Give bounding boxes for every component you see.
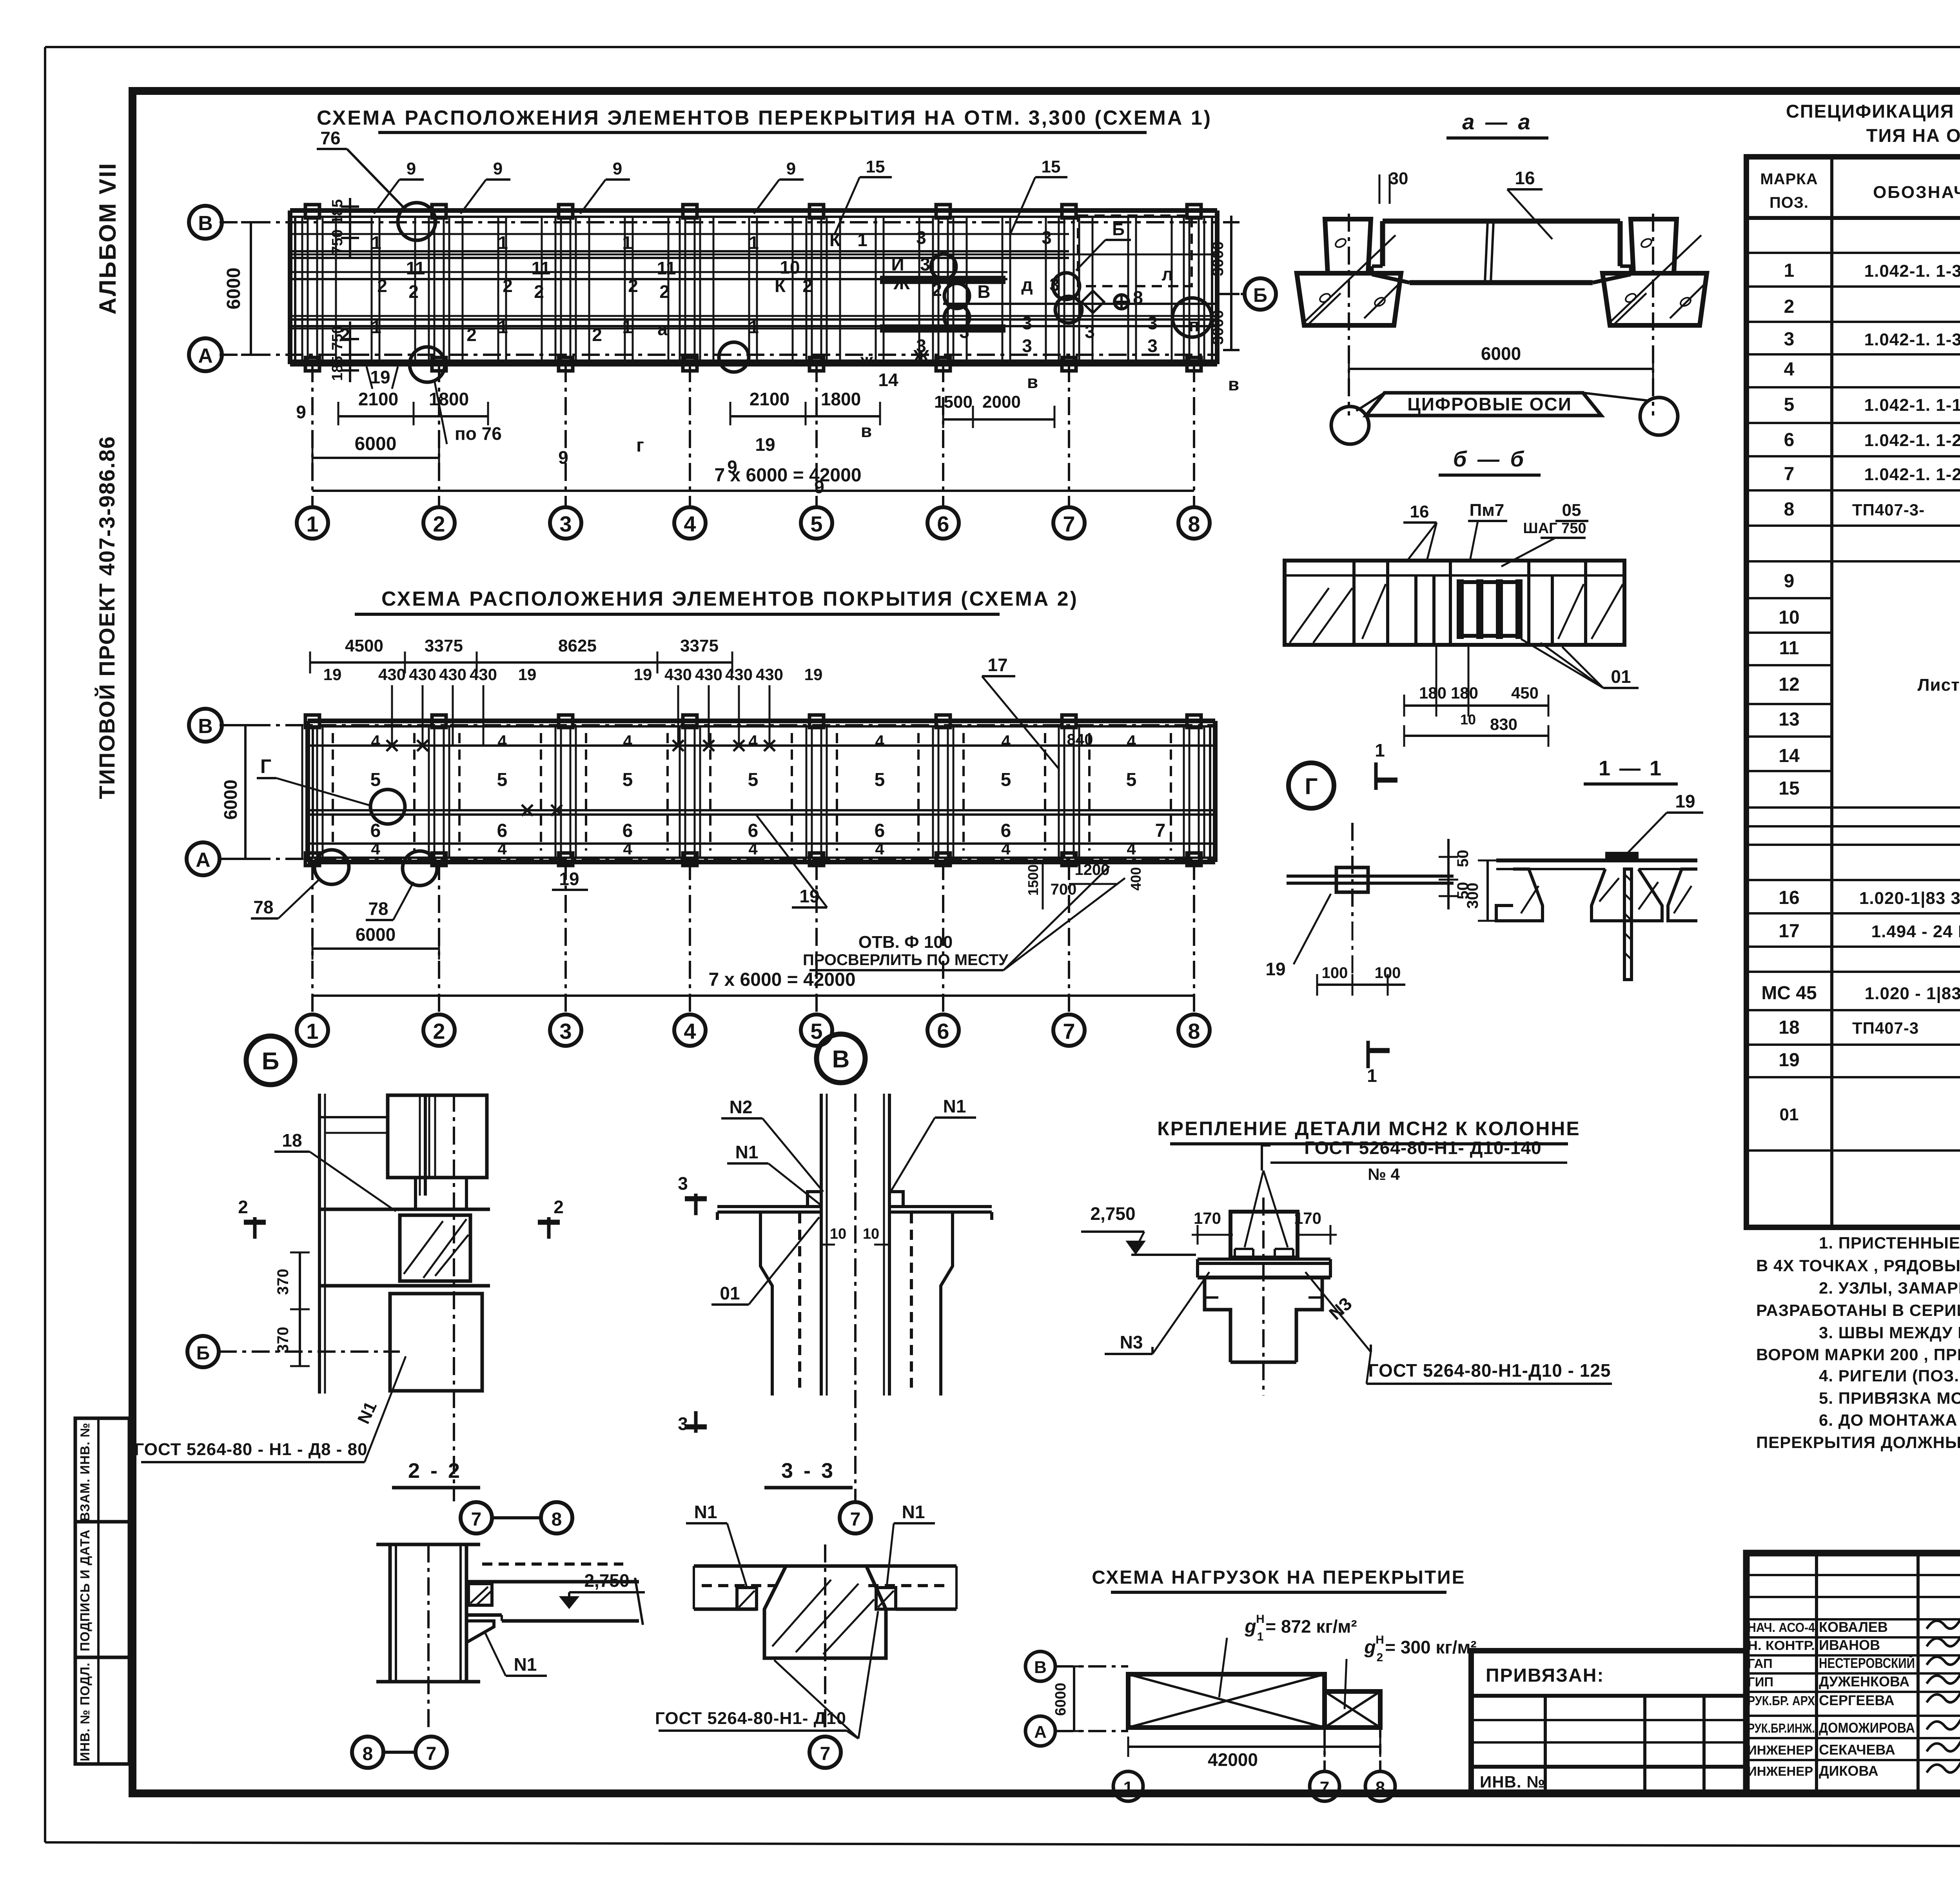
- svg-text:4: 4: [875, 732, 884, 750]
- svg-text:РАЗРАБОТАНЫ В СЕРИИ 1.020 -: РАЗРАБОТАНЫ В СЕРИИ 1.020 - 1|83 ВЫП. 6-…: [1756, 1301, 1960, 1320]
- schema 1 right dimension 3000/3000: [1209, 216, 1240, 350]
- svg-text:1: 1: [371, 232, 381, 253]
- svg-text:Б: Б: [1253, 284, 1267, 306]
- svg-text:15: 15: [866, 157, 885, 176]
- svg-text:6: 6: [748, 820, 759, 841]
- svg-text:78: 78: [253, 897, 273, 917]
- svg-text:2: 2: [466, 325, 477, 345]
- schema 2 axis lines: [220, 725, 1215, 859]
- svg-text:ДОМОЖИРОВА: ДОМОЖИРОВА: [1819, 1720, 1915, 1736]
- svg-text:СПЕЦИФИКАЦИЯ К СХЕМАМ РАСПО: СПЕЦИФИКАЦИЯ К СХЕМАМ РАСПОЛОЖЕНИЯ ЭЛЕМЕ…: [1786, 101, 1960, 122]
- detail Б leader 18: [274, 1130, 396, 1211]
- svg-text:№ 4: № 4: [1368, 1165, 1400, 1183]
- svg-text:Пм7: Пм7: [1470, 501, 1504, 520]
- svg-text:1.020 - 1|83 7-1 120: 1.020 - 1|83 7-1 120: [1865, 984, 1960, 1004]
- svg-text:К: К: [775, 276, 786, 296]
- schema 1 left dimension 185/750 top: [329, 198, 359, 259]
- svg-text:10: 10: [1460, 711, 1476, 728]
- section a-a left support (ригель): [1297, 219, 1401, 325]
- svg-text:6000: 6000: [1053, 1683, 1069, 1716]
- svg-text:11: 11: [1779, 638, 1799, 659]
- svg-text:370: 370: [274, 1327, 292, 1353]
- svg-text:180: 180: [1451, 684, 1478, 702]
- load schema axis circles В А: [1025, 1651, 1128, 1746]
- svg-text:4: 4: [497, 732, 507, 750]
- svg-text:7: 7: [1320, 1778, 1329, 1797]
- svg-text:300: 300: [1464, 883, 1481, 909]
- svg-text:ДИКОВА: ДИКОВА: [1819, 1763, 1878, 1779]
- schema 2 node circles bottom: [314, 850, 437, 886]
- svg-text:2,750: 2,750: [584, 1570, 629, 1591]
- section 1-1 drawing: [1496, 852, 1697, 980]
- svg-text:1500: 1500: [934, 392, 973, 412]
- svg-text:19: 19: [755, 434, 775, 455]
- detail В leaders N2 N1: [721, 1096, 976, 1205]
- svg-text:1: 1: [1367, 1065, 1377, 1086]
- svg-text:830: 830: [1490, 715, 1517, 733]
- svg-text:170: 170: [1194, 1209, 1221, 1227]
- detail Г drawing: [1287, 823, 1454, 922]
- svg-text:430: 430: [378, 665, 406, 684]
- svg-text:2: 2: [433, 512, 445, 536]
- svg-text:170: 170: [1294, 1209, 1321, 1227]
- detail Г section mark 1 top: [1375, 740, 1397, 790]
- schema 1 label по 7Б: [434, 380, 502, 444]
- svg-text:11: 11: [532, 258, 551, 278]
- section a-a plate poz 16: [1372, 221, 1631, 283]
- schema 2 anchor x-marks: [387, 740, 775, 816]
- svg-text:ПРОСВЕРЛИТЬ ПО МЕСТУ: ПРОСВЕРЛИТЬ ПО МЕСТУ: [803, 951, 1009, 969]
- section a-a dimension 6000: [1349, 343, 1653, 380]
- svg-text:2: 2: [408, 281, 419, 302]
- svg-text:Б: Б: [1112, 220, 1125, 239]
- schema 1 detail diamond and target marks: [1082, 291, 1130, 313]
- svg-text:6: 6: [875, 820, 885, 841]
- svg-text:1: 1: [371, 317, 381, 337]
- load schema dimension 42000: [1128, 1737, 1380, 1770]
- svg-text:3: 3: [916, 227, 926, 248]
- svg-text:2000: 2000: [982, 392, 1021, 412]
- svg-text:4: 4: [623, 732, 632, 750]
- load schema title: [1092, 1567, 1465, 1592]
- svg-text:1: 1: [306, 1019, 318, 1043]
- schema 2 left dimension 6000: [220, 725, 255, 859]
- detail В dims 10 10: [821, 1226, 889, 1245]
- section 1-1 title: [1584, 757, 1678, 784]
- section 3-3 labels N1: [686, 1502, 935, 1587]
- svg-text:Н: Н: [1256, 1613, 1265, 1626]
- svg-text:11: 11: [406, 258, 425, 278]
- svg-text:9: 9: [613, 159, 622, 178]
- detail Б axis circle Б: [187, 1336, 400, 1367]
- svg-text:а: а: [657, 319, 668, 339]
- spec table rows 1-8 плиты: [1784, 260, 1960, 520]
- svg-text:7: 7: [820, 1744, 831, 1764]
- svg-text:2: 2: [433, 1019, 445, 1043]
- svg-text:5: 5: [370, 769, 381, 790]
- svg-text:10: 10: [1779, 607, 1799, 628]
- detail Г section mark 1 bottom: [1367, 1041, 1390, 1086]
- svg-text:78: 78: [368, 898, 388, 919]
- svg-text:ТИПОВОЙ ПРОЕКТ 407-3-986.86: ТИПОВОЙ ПРОЕКТ 407-3-986.86: [94, 436, 119, 799]
- left margin stamp table: [75, 1418, 129, 1764]
- svg-text:8: 8: [1376, 1778, 1385, 1797]
- svg-text:16: 16: [1779, 887, 1799, 908]
- svg-text:6: 6: [622, 820, 633, 841]
- svg-text:Н: Н: [1376, 1633, 1384, 1646]
- section б-б leader 01: [1521, 639, 1639, 688]
- schema 2 top dimension chain: [310, 636, 732, 673]
- svg-text:1: 1: [749, 317, 759, 337]
- schema 2 bay dimension 6000: [312, 924, 439, 960]
- svg-text:3: 3: [678, 1173, 688, 1194]
- МСН2 detail drawing (деталь МСН2 на колонне): [1198, 1198, 1330, 1396]
- schema 1 bottom dims 1500 2000 (bay6): [934, 392, 1054, 428]
- svg-text:430: 430: [439, 665, 466, 684]
- schema 2 column ribs: [302, 715, 1204, 866]
- svg-text:А: А: [196, 849, 211, 871]
- svg-text:1: 1: [1784, 260, 1795, 281]
- svg-text:В: В: [198, 715, 213, 738]
- detail Б drawing: [319, 1094, 490, 1501]
- svg-text:СХЕМА НАГРУЗОК НА ПЕРЕКРЫТИ: СХЕМА НАГРУЗОК НА ПЕРЕКРЫТИЕ: [1092, 1567, 1465, 1588]
- section a-a right support (ригель): [1602, 219, 1707, 325]
- svg-text:7 x 6000 = 42000: 7 x 6000 = 42000: [714, 465, 861, 486]
- svg-text:30: 30: [1389, 169, 1408, 188]
- svg-text:= 872 кг/м²: = 872 кг/м²: [1265, 1616, 1357, 1637]
- svg-text:КРЕПЛЕНИЕ ДЕТАЛИ МСН2 К: КРЕПЛЕНИЕ ДЕТАЛИ МСН2 К КОЛОННЕ: [1157, 1118, 1581, 1140]
- svg-text:1: 1: [498, 232, 508, 253]
- svg-text:1: 1: [1123, 1778, 1133, 1797]
- svg-text:19: 19: [804, 665, 823, 684]
- svg-text:3: 3: [1022, 336, 1032, 356]
- svg-text:6: 6: [937, 1019, 949, 1043]
- schema 2 label 19 lower: [757, 815, 827, 907]
- svg-text:19: 19: [1265, 959, 1285, 979]
- svg-text:Г: Г: [260, 755, 271, 777]
- svg-text:ВОРОМ МАРКИ 200 , ПРЕДВАРИТЕ: ВОРОМ МАРКИ 200 , ПРЕДВАРИТЕЛЬНО ОЧИСТИВ…: [1756, 1345, 1960, 1364]
- svg-text:1 — 1: 1 — 1: [1599, 757, 1663, 780]
- schema 1 axis circle B (row): [189, 206, 222, 239]
- svg-text:3: 3: [559, 512, 572, 536]
- spec table row 01 полоса: [1780, 1091, 1960, 1136]
- svg-text:15: 15: [1042, 157, 1061, 176]
- svg-text:ИНЖЕНЕР: ИНЖЕНЕР: [1748, 1764, 1813, 1778]
- svg-text:19: 19: [559, 869, 579, 889]
- МСН2 level mark 2,750: [1081, 1203, 1196, 1255]
- МСН2 гост note bottom: [1367, 1352, 1612, 1384]
- svg-text:Ж: Ж: [913, 346, 929, 367]
- svg-text:НЕСТЕРОВСКИЙ: НЕСТЕРОВСКИЙ: [1819, 1655, 1915, 1671]
- schema 2 right dims 1500 1200 700 400: [1025, 861, 1144, 909]
- svg-text:2,750: 2,750: [1090, 1203, 1135, 1224]
- svg-text:7 x 6000 = 42000: 7 x 6000 = 42000: [708, 969, 855, 990]
- svg-text:430: 430: [756, 665, 783, 684]
- svg-text:185: 185: [329, 199, 346, 224]
- svg-text:01: 01: [1780, 1105, 1799, 1124]
- spec table rows 9-15 monolithic: [1779, 571, 1960, 799]
- title block frame: [1746, 1553, 1960, 1793]
- svg-text:ВЗАМ. ИНВ. №: ВЗАМ. ИНВ. №: [78, 1423, 92, 1521]
- svg-text:4: 4: [684, 1019, 696, 1043]
- svg-text:ДУЖЕНКОВА: ДУЖЕНКОВА: [1819, 1673, 1909, 1689]
- svg-text:6: 6: [370, 820, 381, 841]
- svg-text:1: 1: [622, 232, 632, 253]
- svg-text:ПЕРЕКРЫТИЯ ДОЛЖНЫ БЫТЬ З: ПЕРЕКРЫТИЯ ДОЛЖНЫ БЫТЬ ЗАКОНЧЕНЫ.: [1756, 1433, 1960, 1452]
- svg-text:01: 01: [720, 1283, 740, 1303]
- svg-text:10: 10: [863, 1226, 879, 1242]
- svg-text:17: 17: [1779, 921, 1799, 942]
- schema 1 left dimension 6000: [223, 222, 261, 355]
- svg-text:42000: 42000: [1208, 1749, 1258, 1770]
- svg-text:3: 3: [920, 254, 930, 274]
- schema 1 overall dimension 7x6000=42000: [312, 465, 1194, 491]
- detail В grid ref 7: [840, 1502, 871, 1533]
- svg-text:4: 4: [875, 840, 884, 858]
- svg-text:В: В: [198, 212, 213, 235]
- svg-text:2: 2: [1377, 1651, 1383, 1664]
- svg-text:4. РИГЕЛИ (ПОЗ. 16) ЗАМАРК: 4. РИГЕЛИ (ПОЗ. 16) ЗАМАРКИРОВАНЫ В СЕЧЕ…: [1819, 1366, 1960, 1385]
- svg-text:л: л: [1161, 264, 1173, 284]
- svg-text:01: 01: [1611, 666, 1631, 687]
- svg-text:840: 840: [1067, 731, 1093, 748]
- svg-text:N1: N1: [514, 1654, 537, 1675]
- svg-text:4: 4: [497, 840, 507, 858]
- detail В leader 01: [711, 1217, 819, 1305]
- schema 1 in-plan marks: [296, 227, 1239, 477]
- svg-text:2 - 2: 2 - 2: [408, 1459, 462, 1483]
- svg-text:ГОСТ 5264-80 - Н1 - Д8 - 80: ГОСТ 5264-80 - Н1 - Д8 - 80: [134, 1440, 367, 1459]
- spec table grid: [1746, 157, 1960, 1227]
- svg-text:15: 15: [1779, 778, 1799, 799]
- svg-text:1: 1: [749, 232, 759, 253]
- schema 2 in-plan marks: [370, 731, 1166, 858]
- svg-text:2: 2: [932, 279, 942, 300]
- svg-text:1: 1: [306, 512, 318, 536]
- svg-text:ТП407-3-: ТП407-3-: [1852, 501, 1925, 519]
- svg-text:6: 6: [937, 512, 949, 536]
- svg-text:430: 430: [725, 665, 753, 684]
- svg-text:СХЕМА РАСПОЛОЖЕНИЯ ЭЛЕМЕНТОВ: СХЕМА РАСПОЛОЖЕНИЯ ЭЛЕМЕНТОВ ПОКРЫТИЯ (С…: [381, 588, 1078, 610]
- svg-text:5: 5: [875, 769, 885, 790]
- svg-text:2: 2: [802, 276, 813, 296]
- svg-text:6. ДО МОНТАЖА КОНСТРУКЦИЙ: 6. ДО МОНТАЖА КОНСТРУКЦИЙ ПОКРЫТИЯ ВСЕ Р…: [1819, 1410, 1960, 1429]
- svg-text:СЕРГЕЕВА: СЕРГЕЕВА: [1819, 1692, 1895, 1708]
- svg-text:10: 10: [780, 257, 800, 278]
- МСН2 weld labels N3: [1105, 1272, 1371, 1354]
- svg-text:ТП407-3: ТП407-3: [1852, 1019, 1919, 1037]
- section б-б labels: [1403, 501, 1588, 566]
- svg-text:6: 6: [1001, 820, 1011, 841]
- svg-text:АЛЬБОМ VII: АЛЬБОМ VII: [94, 162, 121, 314]
- schema 2 plan band: [308, 721, 1215, 862]
- svg-text:76: 76: [320, 128, 340, 148]
- svg-text:4: 4: [684, 512, 696, 536]
- svg-text:4: 4: [371, 732, 380, 750]
- svg-text:7: 7: [471, 1509, 482, 1530]
- svg-text:9: 9: [558, 447, 568, 468]
- section 3-3 гост weld note: [655, 1611, 878, 1738]
- svg-text:8625: 8625: [558, 636, 597, 655]
- svg-text:3: 3: [959, 321, 969, 342]
- svg-text:10: 10: [830, 1226, 846, 1242]
- svg-text:12: 12: [1779, 674, 1799, 695]
- svg-text:5: 5: [1001, 769, 1011, 790]
- section 2-2 grid refs 8-7: [352, 1737, 447, 1768]
- svg-text:3: 3: [1147, 336, 1158, 356]
- schema 2 note отв ф100: [803, 866, 1125, 970]
- svg-text:1.042-1. 1-2.00.0-01: 1.042-1. 1-2.00.0-01: [1864, 431, 1960, 450]
- detail В drawing column with plates: [717, 1094, 992, 1501]
- detail Б grid refs 7-8: [461, 1502, 572, 1533]
- привязан block: [1471, 1651, 1746, 1793]
- svg-text:4500: 4500: [345, 636, 383, 655]
- svg-text:16: 16: [1410, 502, 1429, 521]
- svg-text:НАЧ. АСО-4: НАЧ. АСО-4: [1748, 1620, 1815, 1635]
- svg-text:N2: N2: [730, 1097, 753, 1117]
- svg-text:N1: N1: [694, 1502, 717, 1522]
- svg-text:1.042-1. 1-2.00.0-49: 1.042-1. 1-2.00.0-49: [1864, 465, 1960, 484]
- svg-text:6: 6: [1784, 430, 1795, 450]
- schema 1 grid circles 1-8: [297, 364, 1210, 539]
- schema 2 430 tick lines: [392, 685, 769, 746]
- svg-text:ЦИФРОВЫЕ ОСИ: ЦИФРОВЫЕ ОСИ: [1407, 394, 1572, 414]
- svg-text:3: 3: [678, 1414, 688, 1434]
- svg-text:11: 11: [657, 258, 676, 278]
- svg-text:4: 4: [371, 840, 380, 858]
- svg-text:ИНВ. №: ИНВ. №: [1480, 1773, 1545, 1791]
- svg-text:МС 45: МС 45: [1761, 983, 1817, 1004]
- svg-text:7: 7: [1063, 1019, 1075, 1043]
- detail Г circle: [1289, 763, 1334, 808]
- svg-text:2: 2: [659, 281, 670, 302]
- load schema block 2 with X: [1325, 1691, 1380, 1728]
- svg-text:430: 430: [664, 665, 692, 684]
- section 1-1 leader 19: [1627, 791, 1703, 854]
- svg-text:5: 5: [622, 769, 633, 790]
- svg-text:3000: 3000: [1209, 241, 1227, 276]
- schema 1 bottom dims 2100 1800 (bay1): [338, 389, 488, 425]
- svg-text:370: 370: [274, 1269, 292, 1295]
- svg-text:g: g: [1244, 1616, 1256, 1637]
- schema 1 leader label Б node: [1076, 220, 1131, 270]
- svg-text:6000: 6000: [1481, 343, 1521, 364]
- svg-text:1500: 1500: [1025, 864, 1041, 896]
- svg-text:МАРКА: МАРКА: [1760, 171, 1818, 188]
- svg-text:17: 17: [987, 655, 1007, 675]
- svg-text:2: 2: [1784, 296, 1795, 317]
- svg-text:А: А: [1034, 1722, 1047, 1742]
- svg-text:185: 185: [329, 356, 346, 381]
- svg-text:8: 8: [1188, 512, 1200, 536]
- МСН2 гост note top: [1245, 1138, 1567, 1247]
- section 2-2 title: [392, 1459, 480, 1488]
- svg-text:180: 180: [1419, 684, 1446, 702]
- svg-text:8: 8: [1784, 499, 1795, 520]
- svg-text:N1: N1: [943, 1096, 966, 1116]
- svg-text:1: 1: [1257, 1630, 1264, 1643]
- spec table rows 16-17: [1779, 887, 1960, 942]
- svg-text:1: 1: [498, 317, 508, 337]
- schema 1 node detail circles: [398, 203, 1212, 382]
- svg-text:4: 4: [1784, 359, 1795, 380]
- schema 2 label 19 mid leader: [552, 869, 588, 890]
- svg-text:5: 5: [810, 1019, 822, 1043]
- svg-text:N3: N3: [1120, 1332, 1143, 1352]
- schema 1 bottom dims 2100 1800 (bay4): [636, 389, 880, 497]
- svg-text:Лист 9: Лист 9: [1918, 675, 1960, 695]
- detail В node circle: [817, 1034, 865, 1083]
- svg-text:2: 2: [534, 281, 544, 302]
- svg-text:Г: Г: [1305, 774, 1318, 799]
- svg-text:3: 3: [1784, 329, 1795, 350]
- svg-text:1.042-1. 1-3.00.0-03: 1.042-1. 1-3.00.0-03: [1864, 330, 1960, 349]
- svg-text:ПРИВЯЗАН:: ПРИВЯЗАН:: [1486, 1665, 1604, 1686]
- svg-text:И: И: [891, 254, 904, 274]
- svg-text:В 4Х ТОЧКАХ , РЯДОВЫЕ - В: В 4Х ТОЧКАХ , РЯДОВЫЕ - В 2Х ТОЧКАХ.: [1756, 1256, 1960, 1275]
- svg-text:ОБОЗНАЧЕНИЕ: ОБОЗНАЧЕНИЕ: [1873, 183, 1960, 202]
- schema 2 430 labels row: [323, 665, 823, 684]
- notes block: [1756, 1234, 1960, 1452]
- svg-text:50: 50: [1454, 850, 1472, 867]
- section 2-2 drawing: [376, 1544, 643, 1731]
- svg-text:6000: 6000: [356, 924, 396, 945]
- svg-text:19: 19: [799, 886, 819, 906]
- svg-text:в: в: [1027, 372, 1038, 392]
- svg-text:ж: ж: [860, 350, 873, 370]
- schema 1 plan band: [290, 211, 1217, 364]
- title block signature rows: [1746, 1553, 1960, 1793]
- svg-text:В: В: [977, 281, 990, 302]
- svg-text:N1: N1: [902, 1502, 925, 1522]
- МСН2 dims 170 170: [1192, 1209, 1337, 1245]
- svg-text:2: 2: [592, 325, 602, 345]
- schema 1 label 19 with ticks: [367, 367, 398, 389]
- section 2-2 level mark 2,750: [561, 1570, 645, 1607]
- schema 1 axis circle Б (right): [1245, 278, 1276, 310]
- svg-text:4: 4: [748, 732, 758, 750]
- svg-text:9: 9: [407, 159, 416, 178]
- svg-text:1: 1: [622, 317, 632, 337]
- svg-text:ГОСТ 5264-80-Н1-Д10 - 125: ГОСТ 5264-80-Н1-Д10 - 125: [1368, 1360, 1611, 1381]
- svg-text:3: 3: [1042, 227, 1052, 248]
- svg-text:а — а: а — а: [1462, 109, 1532, 134]
- svg-text:1.494 - 24 ВЫП. 1: 1.494 - 24 ВЫП. 1: [1871, 922, 1960, 941]
- schema 1 axis circle A (row): [189, 338, 222, 371]
- svg-text:в: в: [1228, 374, 1239, 394]
- svg-text:ИНВ. № ПОДЛ.: ИНВ. № ПОДЛ.: [78, 1662, 92, 1761]
- svg-text:19: 19: [1675, 791, 1695, 811]
- svg-text:ПОДПИСЬ И ДАТА: ПОДПИСЬ И ДАТА: [78, 1529, 92, 1651]
- svg-text:19: 19: [323, 665, 342, 684]
- svg-text:3: 3: [1147, 313, 1158, 333]
- svg-text:СЕКАЧЕВА: СЕКАЧЕВА: [1819, 1742, 1895, 1758]
- schema 1 leader labels 15: [834, 157, 1067, 235]
- spec table header texts: [1760, 162, 1960, 213]
- svg-text:N1: N1: [735, 1142, 759, 1162]
- svg-text:3: 3: [1085, 321, 1095, 342]
- svg-text:по 76: по 76: [455, 423, 502, 444]
- svg-text:3375: 3375: [680, 636, 719, 655]
- svg-text:8: 8: [552, 1509, 562, 1530]
- svg-text:18: 18: [282, 1130, 302, 1151]
- detail Б section marks 2: [238, 1197, 564, 1239]
- svg-text:19: 19: [634, 665, 652, 684]
- svg-text:4: 4: [1001, 732, 1011, 750]
- svg-text:2: 2: [503, 276, 513, 296]
- svg-text:4: 4: [748, 840, 758, 858]
- svg-text:9: 9: [493, 159, 503, 178]
